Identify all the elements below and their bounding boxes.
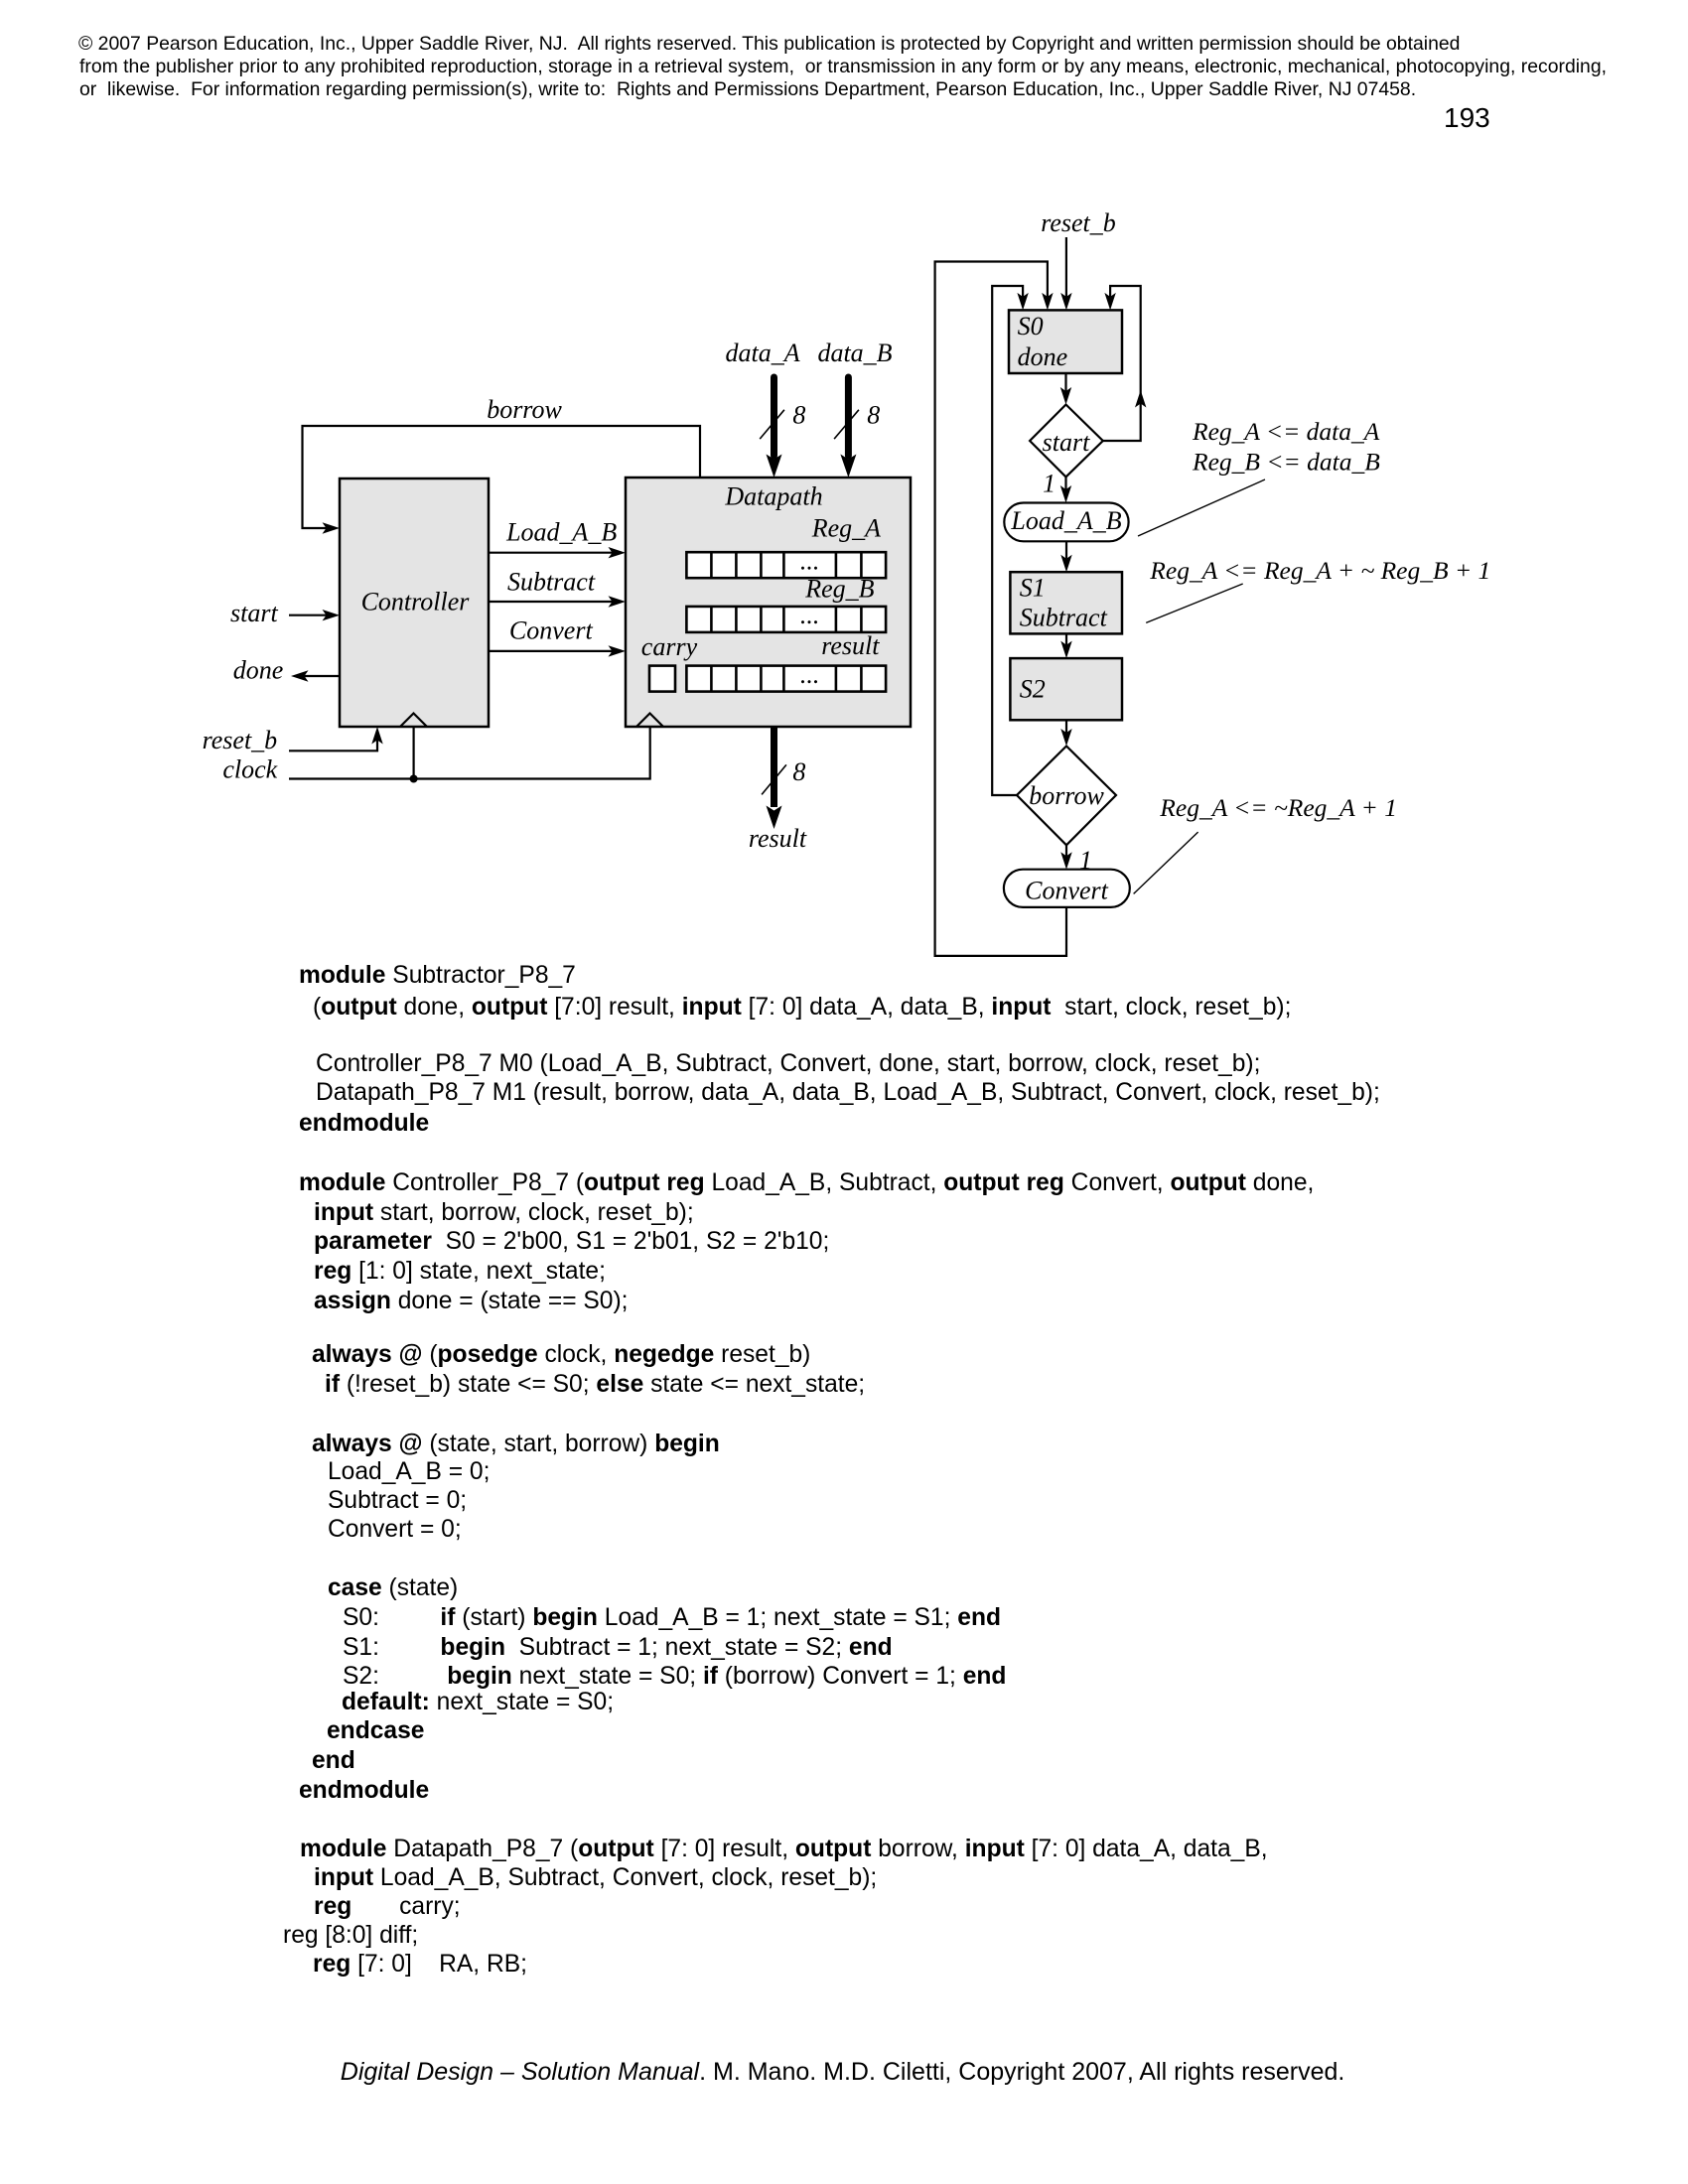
verilog code block [299, 964, 576, 989]
arrowhead reset_b up [371, 727, 382, 745]
bus data_A slash [760, 410, 784, 439]
register Reg_A cells [686, 552, 886, 578]
header copyright line 2 [79, 58, 1607, 76]
wire done [303, 675, 340, 677]
bus data_A [771, 377, 777, 456]
arrowhead bus data_B [840, 455, 856, 478]
bus result [771, 728, 777, 807]
arrowhead S1 to S2 [1060, 641, 1071, 659]
arrowhead borrow to Convert [1060, 852, 1071, 870]
footer [341, 2060, 1345, 2085]
svg-text:done: done [1018, 342, 1068, 371]
arrowhead start return into S0 [1104, 293, 1115, 311]
svg-text:1: 1 [1043, 470, 1055, 498]
leader line Load_A_B annotation [1138, 479, 1265, 536]
decision diamond borrow [1017, 747, 1116, 846]
wire clock branch to Controller [413, 727, 415, 779]
svg-text:reset_b: reset_b [1041, 208, 1116, 237]
arrowhead borrow into Controller [323, 522, 341, 533]
svg-text:borrow: borrow [487, 395, 562, 424]
carry bit box [649, 666, 675, 692]
arrowhead bus result [767, 806, 782, 830]
wire start 0-branch return to S0 [1103, 286, 1141, 441]
wire start [289, 614, 328, 616]
svg-text:Controller: Controller [361, 588, 471, 616]
svg-text:Convert: Convert [1025, 877, 1109, 905]
svg-text:result: result [821, 631, 880, 660]
block Controller [340, 478, 489, 727]
arrowhead up on start 0-branch [1135, 390, 1146, 408]
svg-text:8: 8 [867, 400, 880, 429]
block Datapath [626, 478, 911, 727]
wire start 1-branch to Load_A_B [1064, 477, 1066, 489]
svg-text:Subtract: Subtract [1020, 604, 1108, 632]
svg-text:8: 8 [792, 757, 805, 786]
svg-text:result: result [749, 824, 807, 853]
wire S2 to borrow decision [1065, 720, 1067, 733]
bus result slash [762, 764, 786, 794]
clock wedge Datapath [636, 714, 663, 728]
arrowhead start to Load_A_B [1060, 485, 1071, 503]
svg-text:start: start [230, 599, 278, 627]
svg-text:reset_b: reset_b [203, 726, 278, 754]
register result cells [686, 666, 886, 692]
wire clock [289, 727, 650, 779]
arrowhead Load_A_B to S1 [1060, 555, 1071, 573]
svg-text:Load_A_B: Load_A_B [1010, 506, 1121, 535]
arrowhead S0 to start [1060, 387, 1071, 405]
svg-text:Subtract: Subtract [507, 567, 596, 596]
svg-text:8: 8 [792, 400, 805, 429]
header copyright line 1 [78, 35, 1460, 54]
svg-text:carry: carry [641, 632, 698, 661]
wire S0 to start decision [1064, 373, 1066, 391]
junction dot clock [410, 775, 418, 783]
svg-text:...: ... [800, 547, 820, 576]
arrowhead Convert [609, 645, 627, 656]
svg-text:Load_A_B: Load_A_B [505, 517, 617, 546]
svg-text:Reg_B: Reg_B [804, 574, 874, 603]
clock wedge Controller [400, 714, 427, 728]
register Reg_B cells [686, 607, 886, 632]
arrowhead Convert return into S0 [1042, 293, 1053, 311]
svg-text:S0: S0 [1018, 312, 1044, 341]
state box S0 [1009, 310, 1122, 373]
arrowhead bus data_A [767, 455, 782, 478]
wire Subtract [489, 601, 614, 603]
arrowhead borrow return into S0 [1017, 293, 1028, 311]
svg-text:Reg_A <= data_A: Reg_A <= data_A [1192, 417, 1380, 446]
svg-text:start: start [1043, 428, 1090, 457]
svg-text:data_B: data_B [817, 339, 892, 367]
svg-text:borrow: borrow [1029, 781, 1104, 810]
state box S1 [1010, 572, 1122, 633]
arrowhead done [291, 670, 309, 681]
wire borrow 0-branch return to S0 [992, 286, 1023, 795]
svg-text:clock: clock [222, 754, 277, 783]
svg-text:Reg_A <= ~Reg_A + 1: Reg_A <= ~Reg_A + 1 [1159, 793, 1397, 822]
state box S2 [1010, 658, 1122, 720]
svg-text:Reg_A <= Reg_A + ~ Reg_B + 1: Reg_A <= Reg_A + ~ Reg_B + 1 [1149, 556, 1490, 585]
svg-text:done: done [233, 656, 284, 685]
wire reset_b into S0 [1065, 237, 1067, 297]
wire S1 to S2 [1065, 633, 1067, 644]
svg-text:1: 1 [1079, 846, 1092, 875]
wire Convert return to S0 [935, 262, 1066, 956]
wire Load_A_B [489, 552, 614, 554]
svg-text:S2: S2 [1020, 675, 1046, 704]
leader line S1 annotation [1146, 584, 1243, 622]
svg-text:...: ... [800, 601, 820, 629]
svg-text:S1: S1 [1020, 573, 1046, 602]
header copyright line 3 [79, 80, 1416, 99]
arrowhead reset_b into S0 [1060, 293, 1071, 311]
svg-text:data_A: data_A [726, 339, 800, 367]
wire borrow 1-branch to Convert [1065, 845, 1067, 856]
arrowhead S2 to borrow [1060, 729, 1071, 747]
wire Convert [489, 650, 614, 652]
action oval Load_A_B [1004, 503, 1128, 542]
arrowhead start [323, 610, 341, 620]
svg-text:Reg_B <= data_B: Reg_B <= data_B [1192, 447, 1380, 476]
wire Load_A_B to S1 [1065, 541, 1067, 558]
wire reset_b [289, 740, 377, 751]
svg-text:Convert: Convert [509, 616, 594, 645]
wire borrow feedback loop [303, 426, 701, 528]
svg-text:Reg_A: Reg_A [811, 514, 881, 543]
page number 193 [1444, 104, 1490, 132]
action oval Convert [1004, 870, 1130, 907]
arrowhead Subtract [609, 596, 627, 607]
bus data_B slash [834, 410, 859, 439]
decision diamond start [1030, 405, 1103, 478]
svg-text:...: ... [800, 660, 820, 689]
svg-text:Datapath: Datapath [724, 481, 822, 510]
bus data_B [845, 377, 852, 456]
arrowhead Load_A_B [609, 547, 627, 558]
leader line Convert annotation [1134, 832, 1198, 893]
